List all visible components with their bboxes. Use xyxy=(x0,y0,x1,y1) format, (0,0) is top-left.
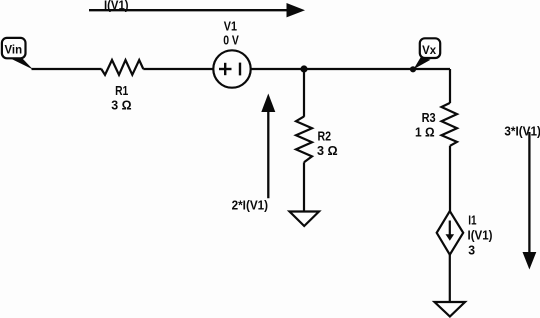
internal arrow shaft xyxy=(449,221,451,237)
svg-text:R3: R3 xyxy=(422,111,436,125)
resistor R1 xyxy=(101,60,143,112)
svg-text:3 Ω: 3 Ω xyxy=(111,98,131,112)
R3 zigzag body xyxy=(442,103,458,146)
balloon tail xyxy=(414,57,431,70)
svg-text:V1: V1 xyxy=(224,20,237,34)
balloon tail xyxy=(9,58,34,70)
svg-text:Vx: Vx xyxy=(422,45,437,57)
arrowhead xyxy=(523,252,537,270)
wire V1 to corner xyxy=(251,68,451,70)
svg-text:Vin: Vin xyxy=(5,45,23,57)
arrowhead xyxy=(261,94,275,113)
svg-text:3: 3 xyxy=(468,244,475,258)
Vin balloon box xyxy=(2,38,26,58)
node label Vin xyxy=(2,38,33,70)
svg-text:0 V: 0 V xyxy=(223,34,239,48)
V1 circle body xyxy=(213,50,250,87)
current annotation arrow 2*I(V1) xyxy=(232,94,276,213)
svg-text:3 Ω: 3 Ω xyxy=(317,144,338,158)
arrow shaft xyxy=(89,9,290,11)
minus bar xyxy=(239,63,241,76)
svg-text:R1: R1 xyxy=(115,84,128,98)
current annotation arrow 3*I(V1) xyxy=(504,125,540,270)
wire node to R2 xyxy=(303,69,305,117)
wire I1 to ground xyxy=(449,255,451,303)
svg-text:I(V1): I(V1) xyxy=(104,0,129,13)
wire corner to R3 xyxy=(449,69,451,103)
svg-text:I(V1): I(V1) xyxy=(468,229,493,243)
node label Vx xyxy=(414,38,441,69)
node dot at Vx xyxy=(410,66,416,72)
ground (R2 branch) xyxy=(290,212,320,227)
svg-text:R2: R2 xyxy=(318,130,332,144)
arrow shaft xyxy=(528,132,530,255)
svg-text:2*I(V1): 2*I(V1) xyxy=(232,199,269,213)
voltage source V1 xyxy=(213,20,250,88)
svg-text:1 Ω: 1 Ω xyxy=(415,126,435,140)
svg-text:I1: I1 xyxy=(468,213,476,227)
arrowhead xyxy=(287,3,306,17)
Vx balloon box xyxy=(420,38,440,58)
current annotation arrow I(V1) xyxy=(89,0,305,17)
plus sign xyxy=(219,68,232,70)
R1 zigzag body xyxy=(101,60,143,75)
junction node dot xyxy=(300,65,307,72)
svg-text:3*I(V1): 3*I(V1) xyxy=(504,125,540,139)
internal arrowhead xyxy=(446,234,455,241)
ground (right branch) xyxy=(435,302,466,317)
arrow shaft xyxy=(267,99,269,198)
I1 diamond body xyxy=(437,211,464,255)
wire R3 to I1 xyxy=(449,146,451,212)
wire Vin to R1 xyxy=(32,68,102,70)
wire R1 to V1 xyxy=(143,68,213,70)
resistor R2 xyxy=(296,116,338,162)
current source I1 xyxy=(437,211,493,257)
R2 zigzag body xyxy=(296,116,312,162)
resistor R3 xyxy=(415,103,457,146)
wire R2 to ground xyxy=(303,162,305,212)
